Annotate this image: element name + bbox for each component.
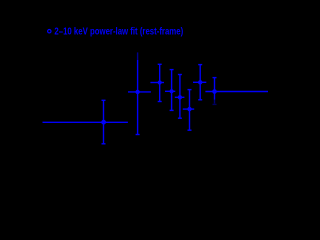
data point P7 marker <box>198 80 202 84</box>
data point P7 error bars <box>193 65 206 100</box>
data point P6 marker <box>187 107 191 111</box>
data point P5 error bars <box>175 75 185 119</box>
data point P5 marker <box>178 95 182 99</box>
data point P8 error bars <box>205 78 268 105</box>
data point P2 marker <box>135 90 139 94</box>
data point P3 marker <box>158 80 162 84</box>
data point P4 marker <box>170 89 174 93</box>
data point P4 error bars <box>165 70 175 111</box>
data point P6 error bars <box>183 90 194 131</box>
svg-text:2–10 keV power-law fit (rest-f: 2–10 keV power-law fit (rest-frame) <box>54 26 183 37</box>
legend text: 2-10 keV power-law fit (rest-frame) <box>54 26 183 37</box>
data point P8 marker <box>212 89 217 94</box>
data point P1 marker <box>101 120 106 125</box>
legend marker (open circle) <box>48 30 51 33</box>
data point P2 error bars <box>128 52 151 134</box>
data point P3 error bars <box>150 64 164 101</box>
data point P1 error bars <box>43 100 128 144</box>
